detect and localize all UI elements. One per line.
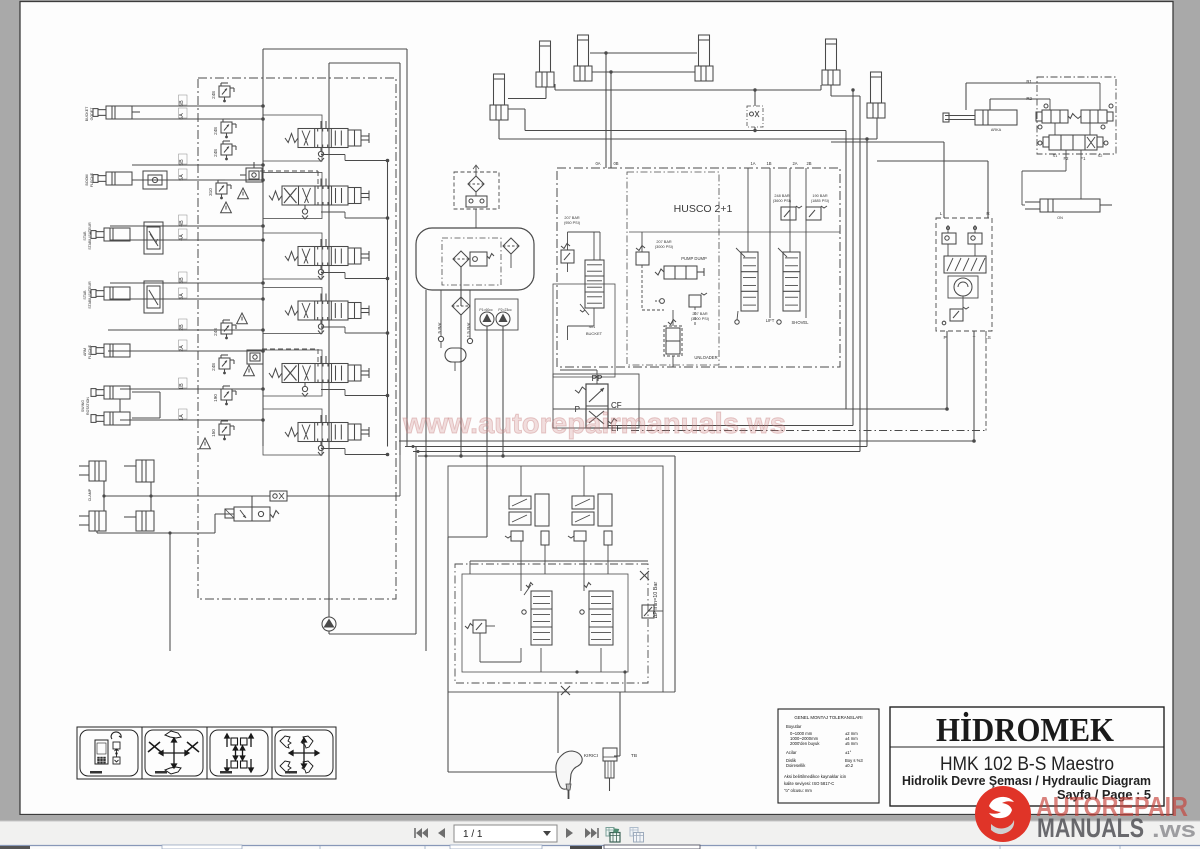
long bus y130: [525, 130, 846, 132]
directional spool valve 5 (4-pos with float): [269, 369, 282, 378]
title divider: [890, 746, 1164, 748]
svg-text:LIFT: LIFT: [766, 318, 775, 323]
bank return line top: [329, 62, 400, 64]
pump P1: [480, 312, 494, 326]
aux dash-dot boundary: [455, 564, 648, 683]
relief valve 248 top: [219, 86, 230, 97]
steering check valves: [942, 233, 956, 244]
wire cyl2 to cyl5: [555, 89, 821, 91]
pump dump relief: [636, 252, 649, 265]
svg-text:(3000 PSI): (3000 PSI): [655, 245, 674, 249]
relief valve 248 (2B): [221, 323, 232, 334]
wire junction vertical x387: [387, 160, 389, 447]
svg-text:6A: 6A: [179, 113, 185, 120]
autorepairmanuals logo circle: [975, 786, 1031, 842]
unloader pilot relief: [689, 295, 701, 307]
svg-text:STABILISATEUR: STABILISATEUR: [88, 222, 92, 250]
anti-cavitation check 5A: [246, 168, 262, 182]
cylinder ARM FLECHE: [104, 344, 130, 357]
port 0A riser: [605, 53, 607, 168]
clamp cylinder 1: [89, 461, 106, 481]
directional spool valve 3: [285, 252, 298, 261]
svg-text:2B: 2B: [179, 324, 185, 331]
anti-cavitation check 2A: [247, 350, 263, 364]
toolbar next button: [566, 828, 573, 838]
bank top supply line: [263, 48, 407, 50]
husco internal wires: [568, 231, 601, 233]
aux main spool left: [531, 591, 552, 645]
tank drop to filters: [475, 209, 477, 228]
aux outer rect: [448, 466, 663, 692]
svg-text:STABILISATEUR: STABILISATEUR: [88, 281, 92, 309]
port line 5A: [132, 179, 263, 181]
svg-text:4B: 4B: [179, 220, 185, 227]
svg-text:HİDROMEK: HİDROMEK: [936, 711, 1114, 749]
tank internal dash-dot box: [442, 238, 501, 285]
right riser x867: [866, 139, 868, 447]
decal outer frame: [77, 727, 336, 779]
port line 2B: [108, 329, 263, 331]
svg-text:5B: 5B: [179, 159, 185, 166]
steering internal wires: [947, 244, 949, 256]
lift spool: [741, 252, 758, 311]
bank section housing 5: [263, 350, 322, 396]
bank section housing 2: [263, 173, 322, 219]
decal 3 outrigger pattern: [225, 734, 253, 772]
right riser x846: [845, 131, 847, 410]
svg-text:0B: 0B: [613, 161, 618, 166]
svg-text:KIRICI: KIRICI: [584, 753, 598, 759]
port line 4A: [110, 239, 263, 241]
port line 3A: [110, 298, 263, 300]
directional spool valve 4: [285, 306, 298, 315]
svg-text:ON: ON: [1057, 216, 1063, 220]
steering LS drop dashed: [985, 331, 987, 431]
bank section housing 1: [263, 115, 322, 161]
port line 6A: [132, 118, 263, 120]
wire return right edge: [406, 49, 408, 447]
stab lock valve 2: [144, 281, 163, 313]
boom holding valve: [143, 171, 167, 189]
HUSCO 2+1 manifold boundary: [557, 168, 840, 367]
svg-text:TB: TB: [631, 753, 637, 759]
svg-text:±0.2: ±0.2: [845, 763, 854, 768]
pump flow direction circle: [322, 617, 336, 631]
R2 wire: [990, 98, 1050, 100]
directional spool valve 2 (4-pos with float): [269, 191, 282, 200]
svg-text:.ws: .ws: [1152, 817, 1196, 842]
priority valve housing rect: [553, 374, 639, 428]
pump P2 outlet: [502, 326, 504, 456]
toolbar last button: [585, 828, 591, 838]
svg-text:1A: 1A: [179, 414, 185, 421]
svg-text:±1°: ±1°: [845, 750, 852, 755]
svg-text:4A: 4A: [179, 234, 185, 241]
svg-text:1B: 1B: [179, 383, 185, 390]
steering gerotor: [948, 276, 978, 298]
F2 line: [1065, 150, 1067, 171]
decal box 2: [145, 730, 203, 776]
svg-text:2000'den buyuk: 2000'den buyuk: [790, 741, 820, 746]
svg-text:(1885 PSI): (1885 PSI): [811, 199, 830, 203]
aux right riser x675: [674, 456, 676, 692]
svg-text:BUCKET: BUCKET: [85, 106, 89, 121]
svg-text:S1: S1: [1053, 154, 1058, 158]
bus line y441: [399, 440, 974, 442]
decal box 4: [275, 730, 333, 776]
aux main spool right: [589, 591, 613, 645]
svg-text:P1=60cc: P1=60cc: [479, 308, 493, 312]
4x1 bucket spool: [585, 260, 604, 308]
aux pilot assembly right: [572, 496, 594, 509]
bank inlet bus vertical: [262, 49, 264, 446]
R1 wire: [966, 82, 1100, 84]
port line 5B: [132, 164, 263, 166]
cylinder STAB STABILISATEUR 2: [104, 287, 130, 300]
husco internal dash-dot: [627, 172, 719, 365]
decal 1 phone icon: [95, 740, 108, 764]
suction line to pumps: [460, 314, 462, 456]
aux drop to TB: [619, 692, 621, 756]
port line 2A: [108, 350, 263, 352]
svg-text:FLECHE: FLECHE: [88, 344, 92, 359]
x plug marks: [640, 571, 649, 580]
svg-text:ROTATION: ROTATION: [86, 397, 90, 415]
clamp solenoid valve: [234, 507, 270, 521]
ARKA cylinder: [975, 110, 1017, 125]
svg-text:ARM: ARM: [83, 348, 87, 356]
aux pilot assembly left: [509, 496, 531, 509]
aux inner rect: [462, 574, 628, 672]
svg-text:3A: 3A: [179, 293, 185, 300]
unloader valve: [664, 326, 682, 356]
spool 5 work lines: [320, 356, 322, 364]
TB plug: [603, 748, 617, 761]
tie line bucket cylinders top: [590, 52, 697, 54]
swivel wires: [754, 90, 756, 106]
PP pilot line: [596, 370, 598, 384]
svg-text:L: L: [940, 211, 943, 216]
svg-text:Hidrolik Devre Şeması / Hydrau: Hidrolik Devre Şeması / Hydraulic Diagra…: [902, 774, 1151, 788]
toolbar page combo: [454, 825, 557, 842]
svg-text:150: 150: [211, 429, 216, 437]
breather dashed box: [454, 172, 499, 209]
svg-text:1A: 1A: [750, 161, 755, 166]
accumulator: [445, 348, 466, 362]
svg-text:S2: S2: [1098, 154, 1103, 158]
bucket spool rect housing: [553, 284, 615, 377]
aux drop to breaker: [557, 692, 559, 753]
boom cylinder right: [826, 39, 837, 70]
spool 6 work lines: [320, 415, 322, 423]
stab lock valve 1: [144, 222, 163, 254]
relief valve 248 (6A): [221, 122, 232, 133]
hydraulic breaker KIRICI: [556, 751, 582, 789]
spool 2 work lines: [320, 179, 322, 187]
decal 2 control pattern ISO: [159, 738, 189, 768]
relief 207 bar 950 psi: [561, 250, 574, 263]
svg-text:0A: 0A: [595, 161, 600, 166]
breather filter diamond: [468, 176, 484, 192]
steering relief: [950, 309, 963, 321]
svg-text:SHOVEL: SHOVEL: [792, 320, 810, 325]
right riser x860: [859, 96, 861, 452]
spool 4 work lines: [320, 294, 322, 302]
suction strainer diamond: [453, 251, 469, 267]
port line 1A: [120, 419, 263, 421]
outrigger cylinder left: [494, 74, 505, 105]
svg-text:248: 248: [213, 328, 218, 336]
svg-text:SWING: SWING: [81, 400, 85, 412]
svg-text:(3000 PSI): (3000 PSI): [691, 317, 710, 321]
pump group box: [475, 299, 518, 330]
svg-text:BUCKET: BUCKET: [586, 331, 603, 336]
svg-text:2A: 2A: [179, 345, 185, 352]
decal 4 excavator pattern: [289, 738, 319, 768]
bank section housing 6: [263, 409, 322, 455]
tolerance table box: [778, 709, 879, 803]
warning triangle 5A-1: [238, 188, 249, 199]
svg-text:248: 248: [211, 363, 216, 371]
svg-text:UNLOADER: UNLOADER: [694, 355, 717, 360]
steering L feed: [943, 142, 945, 218]
port line 3B: [110, 282, 263, 284]
port 0B riser: [610, 72, 612, 168]
aux internal wires: [470, 560, 648, 562]
bucket cylinder left: [578, 35, 589, 66]
toolbar export icon: [606, 828, 614, 837]
svg-text:Acilar: Acilar: [786, 750, 797, 755]
bus line y456: [418, 455, 675, 457]
svg-text:kalite seviyesi: ISO 5817-C: kalite seviyesi: ISO 5817-C: [784, 781, 834, 786]
solenoid block dash-dot boundary: [1037, 77, 1116, 154]
directional spool valve 1: [285, 134, 298, 143]
aux pilot risers: [520, 466, 522, 496]
bus line y451: [413, 451, 860, 453]
swivel coupling dash-dot box: [747, 106, 763, 127]
pump P1 outlet: [486, 326, 488, 537]
svg-text:207 BAR: 207 BAR: [656, 240, 671, 244]
relief valve 248 (5B): [221, 144, 232, 155]
valve bank boundary (dash-dot): [198, 78, 396, 599]
pilot dashed line row5: [262, 348, 318, 350]
bus CF line y409: [553, 408, 947, 410]
svg-text:CLAMP: CLAMP: [88, 488, 92, 501]
warning triangle clamp: [200, 438, 211, 449]
pump P2: [496, 312, 510, 326]
port line 1B: [120, 388, 263, 390]
port line 6B: [132, 105, 263, 107]
aux orifice box: [642, 605, 654, 618]
svg-text:FLECHE: FLECHE: [90, 172, 94, 187]
clamp cylinder 3: [89, 511, 106, 531]
4-way solenoid valve: [1049, 135, 1097, 150]
outrigger cylinder right: [871, 72, 882, 103]
svg-text:4x1: 4x1: [589, 324, 596, 329]
swing link wires: [119, 399, 121, 412]
svg-text:GENEL MONTAJ TOLERANSLARI: GENEL MONTAJ TOLERANSLARI: [794, 715, 862, 720]
tank internal valve: [470, 252, 487, 266]
return filter diamond: [452, 297, 470, 315]
svg-text:www.autorepairmanuals.ws: www.autorepairmanuals.ws: [402, 408, 786, 440]
clamp supply line: [104, 495, 270, 497]
svg-text:P2=23cc: P2=23cc: [498, 308, 512, 312]
decal box 3: [210, 730, 268, 776]
riser junction dots: [604, 51, 607, 54]
svg-text:±5 mm: ±5 mm: [845, 741, 858, 746]
cylinder BUCKET GODET: [106, 106, 132, 119]
steering control section: [944, 256, 986, 273]
svg-text:P: P: [943, 335, 946, 340]
aux relief valve: [473, 620, 486, 633]
clamp return drop: [169, 533, 171, 651]
solenoid valve S4 right: [1081, 110, 1107, 123]
aux bottom risers: [624, 672, 626, 692]
svg-text:Boyutlar: Boyutlar: [786, 724, 802, 729]
tie line bucket cylinders bottom: [592, 71, 695, 73]
wire cyl1 right: [508, 98, 546, 100]
svg-text:1B: 1B: [766, 161, 771, 166]
svg-text:"o" olcusu: mm: "o" olcusu: mm: [784, 788, 812, 793]
toolbar copy icon: [630, 828, 638, 837]
svg-text:190 BAR: 190 BAR: [812, 194, 827, 198]
svg-text:1 / 1: 1 / 1: [463, 829, 483, 840]
bucket cylinder right: [699, 35, 710, 66]
steering R feed: [987, 161, 989, 218]
toolbar first-page button: [414, 828, 416, 838]
directional spool valve 6: [285, 428, 298, 437]
ON cylinder: [1040, 199, 1100, 212]
decal box 1: [80, 730, 138, 776]
breather element: [466, 196, 487, 207]
clamp valve wires: [251, 496, 253, 507]
svg-text:GODET: GODET: [90, 107, 94, 121]
pump pressure line vertical: [328, 63, 330, 617]
svg-text:Aksi belirtilmedikce kaynaklar: Aksi belirtilmedikce kaynaklar icin: [784, 774, 847, 779]
svg-text:STAB: STAB: [83, 231, 87, 241]
solenoid block wires: [1049, 99, 1051, 110]
relief valve 190 (1B): [221, 389, 232, 400]
svg-text:248 BAR: 248 BAR: [774, 194, 789, 198]
svg-text:248: 248: [213, 127, 218, 135]
right riser x853: [852, 90, 854, 426]
priority valve PP CF EF: [586, 384, 608, 428]
bank section housing 3: [263, 233, 322, 279]
svg-text:ARKA: ARKA: [991, 128, 1002, 132]
wire cyl1 to long bus: [508, 108, 525, 110]
relief valve 150 (1A): [219, 424, 230, 435]
boom cylinder left: [540, 41, 551, 72]
steering unit dashed boundary: [936, 218, 992, 331]
spool 3 work lines: [320, 239, 322, 247]
bottom edge strip: [0, 845, 1200, 849]
warning triangle 2A-2: [244, 365, 255, 376]
F1 line: [1080, 150, 1082, 199]
spool 1 work lines: [320, 121, 322, 129]
svg-text:HMK 102 B-S Maestro: HMK 102 B-S Maestro: [940, 753, 1114, 775]
relief valve 248 (2A): [219, 358, 230, 369]
relief valve 310 (5A): [216, 183, 227, 194]
solenoid valve S3 left: [1042, 110, 1068, 123]
steering T drop: [973, 331, 975, 441]
bank section housing 4: [263, 288, 322, 334]
hydraulic tank: [416, 228, 534, 290]
svg-text:BOOM: BOOM: [85, 175, 89, 186]
return riser x426: [425, 290, 427, 651]
svg-text:Doiresellik: Doiresellik: [786, 763, 806, 768]
svg-text:5A: 5A: [179, 174, 185, 181]
steering P drop: [946, 331, 948, 409]
clamp cylinder 4: [136, 511, 154, 531]
swing motor cylinder A: [104, 386, 130, 399]
main title box: [890, 707, 1164, 806]
shovel spool: [783, 252, 800, 311]
svg-text:310: 310: [208, 188, 213, 196]
bus EF line y425: [608, 425, 853, 427]
port line 4B: [110, 225, 263, 227]
svg-text:248: 248: [211, 91, 216, 99]
svg-text:HUSCO 2+1: HUSCO 2+1: [674, 203, 733, 215]
warning triangle 2B: [237, 313, 248, 324]
pilot dashed line row2: [260, 170, 318, 172]
svg-text:207 BAR: 207 BAR: [564, 216, 579, 220]
swing motor cylinder B: [104, 412, 130, 425]
svg-text:190: 190: [213, 394, 218, 402]
clamp cylinder 2: [136, 460, 154, 482]
svg-text:PUMP DUMP: PUMP DUMP: [681, 256, 707, 261]
cylinder STAB STABILISATEUR 1: [104, 228, 130, 241]
warning triangle 5A-2: [221, 202, 232, 213]
bus line y446: [405, 446, 867, 448]
long bus y139: [499, 138, 877, 140]
clamp orifice check: [270, 491, 287, 501]
toolbar background: [0, 815, 1200, 821]
svg-text:6B: 6B: [179, 100, 185, 107]
svg-text:MANUALS: MANUALS: [1037, 813, 1144, 843]
toolbar prev button: [438, 828, 445, 838]
svg-text:(3600 PSI): (3600 PSI): [773, 199, 792, 203]
svg-text:STAB: STAB: [83, 290, 87, 300]
return filter 2 diamond: [503, 238, 519, 254]
wire pump outlet to right: [329, 633, 416, 635]
svg-text:(950 PSI): (950 PSI): [564, 221, 581, 225]
breaker side feed: [447, 692, 449, 772]
cylinder BOOM FLECHE: [106, 172, 132, 185]
svg-text:2A: 2A: [792, 161, 797, 166]
svg-text:248: 248: [213, 149, 218, 157]
svg-text:2B: 2B: [806, 161, 811, 166]
svg-text:3B: 3B: [179, 277, 185, 284]
bus dash-dot LS y430: [631, 430, 986, 432]
priority valve springs: [575, 387, 586, 393]
husco check and orifice: [660, 299, 665, 304]
